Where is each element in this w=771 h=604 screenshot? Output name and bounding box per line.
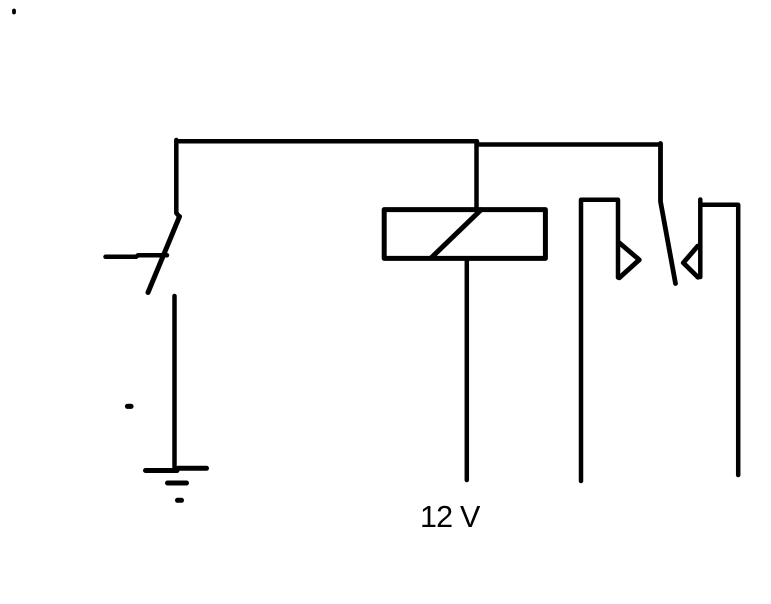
node dot [128, 404, 132, 409]
wire junction drop to relay coil [474, 142, 479, 210]
switch S1 throw contact [106, 255, 168, 256]
wire left vertical drop [176, 140, 179, 216]
relay contact B right terminal [736, 206, 741, 476]
wire lower-left vertical [172, 296, 177, 467]
relay contact B left terminal [698, 200, 703, 278]
svg-text:12 V: 12 V [420, 500, 481, 534]
ground bar 2 [168, 481, 187, 486]
relay coil K1 diagonal [432, 210, 482, 258]
stray dot [12, 11, 16, 13]
relay contact B top link [701, 203, 738, 208]
wire top horizontal right segment [478, 142, 661, 147]
switch S1 lever [148, 217, 180, 293]
ground dot [178, 498, 182, 503]
relay contact A left terminal [581, 200, 618, 481]
wire coil to 12V supply [465, 261, 470, 481]
relay contact A arrow [619, 243, 639, 278]
relay contact B arrow [683, 246, 698, 277]
wire top horizontal left segment [176, 139, 477, 144]
switch lever right [661, 144, 676, 284]
relay coil K1 body [384, 210, 545, 259]
ground bar 1 [146, 468, 207, 470]
